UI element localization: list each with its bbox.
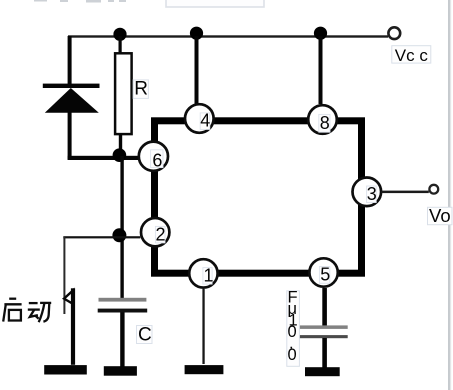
label Vcc — [392, 46, 431, 65]
IC 555 body — [155, 121, 362, 273]
pin 2 — [141, 218, 169, 246]
svg-text:0: 0 — [288, 346, 297, 364]
junction node threshold — [113, 148, 127, 162]
resistor R — [115, 53, 132, 134]
junction node trigger — [112, 228, 126, 242]
wire pin2 to trigger node — [63, 236, 140, 238]
pin 6 — [139, 142, 168, 171]
label R — [133, 79, 148, 100]
ground capacitor C — [104, 366, 137, 376]
svg-text:3: 3 — [367, 184, 377, 204]
wire trigger node to switch — [63, 237, 65, 314]
ground capacitor C2 — [305, 367, 340, 376]
junction node resistor top — [113, 28, 126, 41]
ground switch — [44, 365, 87, 374]
wire rail to pin4 — [195, 36, 199, 104]
junction node pin8 top — [314, 27, 327, 40]
wire rail to pin8 — [319, 36, 323, 104]
wire capacitor C to ground — [120, 313, 124, 367]
svg-text:6: 6 — [152, 150, 162, 170]
svg-text:8: 8 — [320, 113, 330, 133]
wire pin5 to capacitor C2 — [322, 288, 327, 326]
label C — [137, 325, 153, 346]
pin 1 — [189, 259, 217, 287]
label 启动 — [3, 299, 51, 323]
label Vo — [428, 205, 453, 226]
terminal Vo — [429, 185, 438, 194]
svg-text:1: 1 — [204, 266, 214, 286]
ground pin1 — [185, 365, 224, 374]
pin 4 — [185, 104, 214, 133]
svg-text:Vo: Vo — [429, 205, 451, 226]
svg-text:R: R — [134, 79, 148, 100]
wire Vcc rail — [68, 35, 388, 37]
pin 8 — [308, 105, 337, 134]
svg-text:4: 4 — [200, 111, 210, 131]
svg-text:C: C — [138, 325, 152, 346]
capacitor C2 — [299, 325, 348, 338]
switch S (start button) — [64, 288, 75, 365]
junction node pin4 top — [190, 27, 203, 40]
wire diode anode to threshold node — [68, 112, 140, 160]
svg-text:Vc c: Vc c — [395, 46, 429, 65]
capacitor C — [98, 298, 148, 313]
label 0.01uF — [287, 289, 300, 367]
wire rail to resistor — [119, 36, 122, 54]
wire capacitor C2 to ground — [322, 338, 327, 368]
svg-text:5: 5 — [320, 264, 330, 284]
wire discharge column — [120, 156, 123, 299]
svg-text:2: 2 — [156, 224, 166, 244]
terminal Vcc — [388, 27, 400, 39]
diode D1 — [43, 84, 100, 113]
pin 5 — [309, 258, 337, 286]
wire pin1 to ground — [202, 289, 204, 364]
pin 3 — [353, 178, 382, 207]
wire rail to diode cathode — [68, 36, 72, 85]
wire resistor to threshold node — [119, 134, 122, 157]
wire pin3 output — [381, 191, 429, 194]
